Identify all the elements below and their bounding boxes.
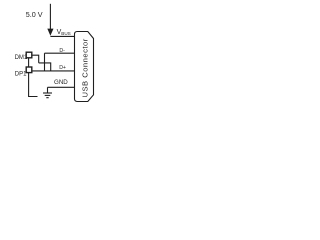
svg-text:DM1: DM1 (15, 55, 28, 61)
pin DP1 (26, 67, 32, 73)
wire DM1 stub from pin (32, 55, 39, 63)
svg-text:DP1: DP1 (15, 72, 27, 78)
svg-text:D+: D+ (59, 65, 66, 71)
pin DM1 (26, 52, 32, 58)
power arrow 5.0V (47, 29, 53, 36)
svg-text:5.0 V: 5.0 V (26, 10, 43, 19)
svg-text:D-: D- (59, 48, 65, 54)
wire DP1 jog up to D- (44, 53, 46, 71)
svg-text:USB Connector: USB Connector (80, 38, 89, 97)
svg-text:GND: GND (54, 79, 68, 86)
wire device edge below DP1 pin (29, 72, 38, 96)
USB connector J1 body (75, 32, 94, 102)
net 5.0V supply line (49, 4, 51, 30)
wire D- row (45, 52, 75, 54)
wire device edge between pins (28, 58, 30, 68)
wire DM1 middle horizontal (39, 63, 51, 71)
wire D+ row (32, 70, 75, 72)
wire GND row (48, 86, 75, 88)
ground (43, 87, 52, 97)
wire VBUS horizontal (50, 35, 74, 37)
